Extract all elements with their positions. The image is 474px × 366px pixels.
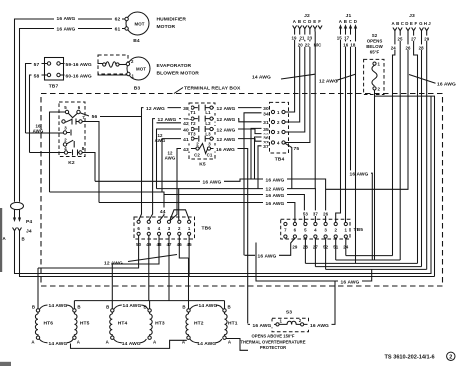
wire HT4-B up [111, 264, 113, 309]
wire 57 [26, 64, 48, 134]
svg-text:HT5: HT5 [80, 321, 90, 327]
terminal block TB6 [134, 217, 195, 239]
heater HT5 [73, 309, 76, 312]
svg-text:B4: B4 [133, 38, 140, 44]
svg-text:28: 28 [419, 45, 424, 50]
svg-text:T3: T3 [190, 132, 196, 137]
svg-text:14 AWG: 14 AWG [122, 341, 141, 347]
svg-text:19: 19 [292, 36, 297, 41]
svg-text:12 AWG: 12 AWG [217, 117, 236, 123]
wire 42 to K5 T2 [157, 119, 191, 123]
svg-text:16 AWG: 16 AWG [266, 201, 285, 207]
wire 59 (16 AWG) [60, 63, 102, 65]
svg-text:J3: J3 [409, 13, 415, 19]
wire 12 AWG K5-40 to TB5-5 [157, 189, 316, 223]
svg-text:14 AWG: 14 AWG [49, 303, 68, 309]
svg-text:TB5: TB5 [354, 227, 364, 233]
evaporator blower motor start winding box [98, 55, 128, 74]
svg-text:L3: L3 [205, 132, 211, 137]
svg-text:THERMAL OVERTEMPERATURE: THERMAL OVERTEMPERATURE [241, 339, 306, 344]
wire 24 TB5-1 [345, 238, 347, 256]
svg-text:14 AWG: 14 AWG [49, 341, 68, 347]
svg-text:12 AWG: 12 AWG [319, 78, 338, 84]
wire 37 to TB4-4 [258, 144, 272, 189]
K2 contact row 1-7 [62, 120, 65, 123]
svg-text:D: D [354, 19, 357, 24]
wire HT1-B up [224, 301, 226, 309]
TB6 wire numbers [134, 241, 195, 247]
wire J1-C [351, 32, 373, 260]
K5 pole T2-L2 [191, 117, 194, 120]
wire 36 to TB4-4 [255, 137, 272, 179]
wire 60 (16 AWG) [60, 74, 127, 76]
wire 39 (12 AWG) to K5 T2 [149, 119, 191, 221]
svg-text:16 AWG: 16 AWG [310, 323, 329, 329]
wire J2-E down [314, 32, 316, 189]
svg-text:12 AWG: 12 AWG [104, 261, 123, 267]
wire 29 TB5-6 to S3 (16 AWG) [245, 238, 295, 255]
wire HT1-A to lower right [226, 339, 248, 351]
label 12 AWG for TB6 wires [128, 255, 177, 262]
svg-text:24: 24 [391, 45, 396, 50]
heater HT3 [148, 309, 151, 312]
J1 pin contacts (arrows) [340, 28, 342, 33]
svg-text:T2: T2 [190, 121, 196, 126]
wire 40 (12 AWG) to K5 T3 [157, 129, 191, 189]
svg-text:EVAPORATOR: EVAPORATOR [157, 63, 192, 69]
wire 38 (12 AWG) to K5 T1 [139, 108, 191, 221]
wire 34 to TB4-1 [244, 113, 272, 256]
svg-text:B: B [77, 305, 80, 310]
svg-text:14 AWG: 14 AWG [199, 303, 218, 309]
wire HT5-B up [73, 301, 75, 309]
wire 32 (12 AWG) K5 L3 to TB4-3 [213, 129, 271, 134]
svg-text:27: 27 [411, 37, 416, 42]
svg-text:26: 26 [323, 212, 328, 217]
svg-text:AWG: AWG [165, 156, 176, 161]
svg-text:HT4: HT4 [118, 321, 128, 327]
wire J4-B bus [20, 234, 435, 277]
svg-text:23: 23 [307, 36, 312, 41]
wire 28 TB5-5 [304, 238, 306, 263]
wire TB4-4 to J2-D [285, 32, 310, 143]
TB5 bottom wire numbers [290, 243, 351, 249]
TB6 column 4 [157, 220, 160, 223]
TB6 jumper 3 to 1 [170, 210, 190, 221]
wire 51 TB5-2 [335, 238, 337, 260]
wire 75 from TB4-4 [285, 143, 292, 188]
wire TB4-3 to J2-C [285, 32, 305, 133]
terminal relay box label leader [174, 88, 183, 94]
wire 50 TB6-6 to HT6 [38, 235, 139, 268]
wire 33 (12 AWG) K5 pole4 to TB4-4 [213, 139, 271, 143]
J1 pin number overlays [335, 35, 344, 40]
wire 62 (16 AWG) [15, 19, 125, 202]
svg-text:B: B [298, 19, 301, 24]
TB4 terminal 1 [271, 110, 274, 113]
wire 26 J3-C to TB5-3 [326, 34, 408, 190]
svg-text:HT3: HT3 [155, 321, 165, 327]
wire 14 AWG HT4-HT3 [114, 339, 147, 343]
J3 bundle label 16 AWG [409, 75, 436, 84]
wire 41 (12 AWG) to K5 pole 4 [162, 139, 191, 192]
svg-text:MOT: MOT [135, 22, 145, 27]
wire 14 AWG HT4-HT3 top [114, 305, 148, 309]
wire from K2 pin 7 [82, 122, 99, 203]
label 16 AWG on 44 run [263, 192, 287, 198]
heater HT2 [187, 309, 190, 312]
wire 16 AWG from S3-2 [304, 281, 335, 324]
wire 52 run to J3-F [326, 268, 427, 270]
svg-text:22: 22 [305, 42, 310, 47]
svg-text:62: 62 [115, 17, 121, 23]
wire HT6-B up [37, 268, 39, 309]
wire 24 run to J3-A [346, 255, 393, 257]
svg-text:16 AWG: 16 AWG [350, 172, 369, 178]
svg-text:17: 17 [344, 36, 349, 41]
TB5 column 3 [324, 222, 327, 225]
terminal block TB5 [281, 219, 350, 239]
wire 14 AWG HT6-HT5 [39, 339, 73, 343]
J2 bundle label 14 AWG [281, 74, 315, 79]
TB6 column 2 [178, 220, 181, 223]
svg-text:D: D [308, 19, 311, 24]
J3 socket contacts [393, 28, 397, 34]
svg-text:59-16 AWG: 59-16 AWG [66, 62, 92, 68]
svg-text:16 AWG: 16 AWG [57, 16, 76, 22]
relay K2 [59, 102, 85, 157]
TB5 column 4 [314, 222, 317, 225]
svg-text:16 AWG: 16 AWG [437, 81, 456, 87]
TB5 column 7 [284, 222, 287, 225]
svg-text:75: 75 [294, 146, 300, 152]
TB6 column 6 [137, 220, 140, 223]
wire 52 TB5-3 [325, 238, 327, 269]
wire 46 TB6-2 [179, 235, 188, 258]
svg-text:53: 53 [303, 212, 308, 217]
TB6 column 5 [147, 220, 150, 223]
svg-text:C2: C2 [194, 153, 200, 158]
K5 pole T1-L1 [191, 106, 194, 109]
wire J3-B down [399, 34, 401, 261]
connector J4 [13, 228, 17, 235]
svg-text:B: B [344, 19, 347, 24]
svg-text:B: B [182, 305, 185, 310]
J1 pin numbers [335, 35, 344, 40]
svg-text:P4: P4 [26, 219, 32, 225]
svg-text:12 AWG: 12 AWG [266, 186, 285, 192]
wire S2 branch down [374, 96, 376, 260]
TB4 terminal 2 [271, 120, 274, 123]
TB5 column 2 [334, 222, 337, 225]
TB5 column 6 [293, 222, 296, 225]
wire 16 AWG K2-8 to TB5-4 [95, 179, 326, 222]
svg-text:J1: J1 [346, 13, 352, 19]
svg-text:K5: K5 [199, 162, 206, 168]
wire 48 TB6-4 [112, 235, 159, 264]
svg-text:H: H [424, 21, 427, 26]
terminal relay box dashed border [41, 94, 443, 287]
TB5 top wire numbers 53 37 26 [300, 210, 331, 216]
wire J1-D [355, 32, 357, 263]
svg-text:16: 16 [343, 42, 348, 47]
svg-text:OPENS ABOVE 150°F: OPENS ABOVE 150°F [252, 334, 295, 339]
TB6 column 1 [188, 220, 191, 223]
wire from S2-2 to right side [375, 90, 435, 277]
svg-text:K2: K2 [68, 160, 75, 166]
svg-text:TB6: TB6 [202, 226, 212, 232]
TB5 column 1 [344, 222, 347, 225]
svg-text:16 AWG: 16 AWG [266, 178, 285, 184]
svg-text:HT2: HT2 [194, 321, 204, 327]
svg-text:J2: J2 [304, 13, 310, 19]
svg-text:25: 25 [398, 37, 403, 42]
heater HT4 [111, 309, 114, 312]
K5 pole T3-L3 [191, 127, 194, 130]
wire HT2-B up [188, 258, 190, 309]
svg-text:TB7: TB7 [49, 84, 59, 90]
svg-text:29: 29 [424, 37, 429, 42]
heater HT1 [223, 309, 226, 312]
svg-text:37: 37 [313, 212, 318, 217]
wire 27 run to J3-E [315, 266, 421, 268]
svg-text:15: 15 [337, 36, 342, 41]
K2 armature 5-6 [68, 113, 77, 117]
svg-text:TERMINAL RELAY BOX: TERMINAL RELAY BOX [184, 86, 241, 92]
svg-text:40: 40 [183, 127, 189, 133]
wire 16 AWG lower link [256, 243, 372, 282]
svg-text:26: 26 [406, 45, 411, 50]
svg-text:S3: S3 [286, 310, 292, 316]
TB4 terminal 3 [271, 130, 274, 133]
svg-text:OPENS: OPENS [367, 39, 383, 44]
svg-text:16 AWG: 16 AWG [216, 147, 235, 153]
svg-text:B: B [227, 305, 230, 310]
svg-text:12 AWG: 12 AWG [217, 127, 236, 133]
wire 56 from K2 pin 6 [80, 113, 141, 117]
TB5 column 5 [304, 222, 307, 225]
svg-text:S2: S2 [372, 33, 378, 38]
svg-text:14 AWG: 14 AWG [252, 75, 271, 81]
svg-text:12 AWG: 12 AWG [217, 106, 236, 112]
svg-text:L2: L2 [205, 121, 211, 126]
svg-text:2: 2 [449, 355, 452, 361]
wire 35 to TB4-3 [251, 128, 272, 179]
wire TB4-2 to J2-B [285, 32, 300, 123]
wire 14 AWG HT2-HT1 top [190, 305, 223, 309]
svg-text:21: 21 [300, 36, 305, 41]
K5 pole 4 [191, 137, 194, 140]
svg-text:MOTOR: MOTOR [157, 24, 176, 30]
svg-text:G: G [419, 21, 423, 26]
TB6 column 3 [167, 220, 170, 223]
wire J3-A down [393, 34, 395, 256]
humidifier motor B4 [126, 12, 149, 35]
svg-text:B: B [32, 305, 35, 310]
svg-text:12 AWG: 12 AWG [146, 106, 165, 112]
svg-text:N/C: N/C [314, 42, 322, 47]
svg-text:B: B [22, 237, 25, 242]
TB7 terminal block [45, 58, 64, 81]
svg-text:31: 31 [263, 120, 269, 126]
heater B bus [74, 300, 224, 302]
svg-text:L1: L1 [205, 110, 211, 115]
wire 16 AWG into S3-1 [248, 323, 276, 325]
svg-text:F: F [318, 19, 321, 24]
svg-text:B: B [396, 21, 399, 26]
wire from K2 pin 8 (16 AWG) [82, 153, 95, 182]
wire 31 (12 AWG) K5 L2 to TB4-2 [213, 119, 271, 122]
svg-text:56: 56 [92, 114, 98, 120]
wire 58 [30, 75, 48, 153]
svg-text:HT1: HT1 [228, 321, 238, 327]
svg-text:65°F: 65°F [370, 50, 380, 55]
wire 14 AWG HT2-HT1 [190, 339, 222, 343]
svg-text:TB4: TB4 [275, 157, 285, 163]
J2 pin numbers [290, 35, 299, 40]
svg-text:57: 57 [34, 62, 40, 68]
svg-text:HT6: HT6 [44, 321, 54, 327]
wire J3-F down [426, 34, 428, 270]
svg-text:34: 34 [263, 111, 269, 117]
wire J4-A bus [15, 96, 432, 273]
wire 27 TB5-4 [314, 238, 316, 267]
svg-text:16 AWG: 16 AWG [203, 180, 222, 186]
contactor K5 [189, 103, 215, 159]
svg-text:29: 29 [292, 244, 297, 249]
wire 61 (16 AWG) [20, 29, 125, 202]
svg-text:38: 38 [183, 106, 189, 112]
svg-text:43: 43 [183, 147, 189, 153]
svg-text:E: E [313, 19, 316, 24]
svg-text:20: 20 [298, 42, 303, 47]
svg-text:60-16 AWG: 60-16 AWG [66, 74, 92, 80]
evaporator blower motor B3 [127, 57, 150, 80]
TB4 terminal 4 [271, 141, 274, 144]
wire 51 run to J3-B [336, 259, 401, 261]
wire from K2 pin 5 [50, 112, 66, 192]
svg-text:16 AWG: 16 AWG [341, 279, 360, 285]
wire into K2 pin 4 [30, 152, 65, 154]
svg-text:58: 58 [34, 74, 40, 80]
svg-text:14 AWG: 14 AWG [197, 341, 216, 347]
connector P4 [11, 202, 24, 209]
J1 bundle label 12 AWG [336, 74, 355, 80]
wire J3-E down [421, 34, 423, 267]
svg-text:BELOW: BELOW [366, 44, 383, 49]
svg-text:B3: B3 [134, 86, 141, 92]
wire 28 run to J3-D [305, 262, 417, 264]
svg-text:BLOWER MOTOR: BLOWER MOTOR [157, 71, 200, 77]
wire 30 (12 AWG) K5 L1 to TB4-1 [213, 108, 271, 112]
svg-text:E: E [410, 21, 413, 26]
svg-text:61: 61 [115, 27, 121, 33]
wire J1-A to TB5-2 [336, 32, 341, 222]
svg-text:16 AWG: 16 AWG [253, 323, 272, 329]
wire 49 TB6-5 [148, 235, 150, 300]
svg-text:14 AWG: 14 AWG [123, 303, 142, 309]
svg-text:MOT: MOT [136, 67, 146, 72]
wire 43 to K5 C2 [170, 149, 196, 221]
wire 16 AWG K2-7 to TB5-6 [99, 203, 295, 223]
svg-text:16 AWG: 16 AWG [57, 27, 76, 33]
J3 pin number overlays [396, 36, 405, 41]
svg-text:41: 41 [183, 137, 189, 143]
svg-text:J4: J4 [26, 229, 32, 235]
wire 44 K2-5 to TB6-4 [50, 192, 305, 222]
wire 14 AWG HT6-HT5 top [40, 305, 74, 309]
svg-text:D: D [405, 21, 408, 26]
wire 16 AWG from K5 C1 to S3 [211, 149, 248, 324]
svg-text:PROTECTOR: PROTECTOR [260, 345, 286, 350]
svg-text:12 AWG: 12 AWG [217, 137, 236, 143]
wire 45 TB6-1 [188, 235, 190, 276]
svg-text:C1: C1 [207, 153, 213, 158]
wire HT3-B up [149, 301, 151, 309]
svg-text:18: 18 [350, 42, 355, 47]
terminal block TB4 [270, 102, 289, 153]
heater HT6 [36, 309, 39, 312]
svg-text:TS 3610-202-14/1-6: TS 3610-202-14/1-6 [385, 355, 435, 361]
svg-text:12 AWG: 12 AWG [158, 117, 177, 123]
wire 47 TB6-3 [168, 235, 170, 300]
svg-text:B: B [106, 305, 109, 310]
wire J3-D down [414, 34, 418, 264]
J3 pin numbers [396, 36, 405, 41]
svg-text:HUMIDIFIER: HUMIDIFIER [157, 17, 187, 23]
svg-text:16 AWG: 16 AWG [266, 193, 285, 199]
svg-text:F: F [415, 21, 418, 26]
J2 socket contacts [293, 26, 297, 32]
heater A link bus [71, 340, 187, 348]
svg-text:T1: T1 [190, 110, 196, 115]
wire TB4-1 to J2-A [285, 32, 295, 113]
scan edge marks [0, 208, 2, 272]
wire J1-B to TB5-1 [345, 32, 347, 222]
svg-text:44: 44 [160, 209, 166, 215]
svg-text:37: 37 [263, 144, 269, 150]
svg-text:16 AWG: 16 AWG [258, 254, 277, 260]
